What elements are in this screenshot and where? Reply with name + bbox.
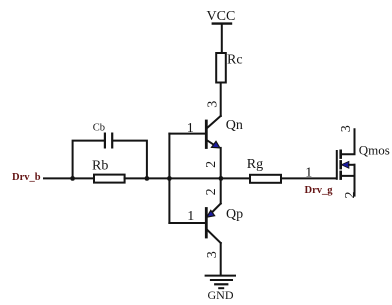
svg-text:1: 1 [187,209,194,224]
mosfet Qmos channel segment middle [339,161,342,168]
svg-text:Cb: Cb [93,122,105,133]
junction dot right riser [145,176,150,181]
svg-text:3: 3 [339,125,354,132]
transistor Qn emitter arrow [212,141,220,148]
svg-text:3: 3 [206,101,221,108]
capacitor Cb left plate [104,134,106,148]
mosfet Qmos body arrow [341,161,349,168]
mosfet Qmos source lead [342,165,355,176]
capacitor Cb right riser wire [113,141,147,179]
wire Qp collector to ground [220,243,222,275]
transistor Qn emitter stroke [207,140,215,145]
resistor Rc [216,53,226,83]
wire Qp base [169,222,205,224]
wire Qp emitter vertical [220,178,222,203]
ground bar 3 [215,283,227,285]
svg-text:Rc: Rc [227,53,243,68]
svg-text:VCC: VCC [207,9,236,24]
mosfet Qmos source pin down [354,176,356,196]
power VCC bar [213,22,231,24]
transistor Qp emitter stroke [213,204,221,212]
transistor Qp emitter arrow [207,210,215,217]
mosfet Qmos channel segment bottom [339,172,342,179]
resistor Rb [94,175,125,183]
resistor Rg [250,175,281,183]
transistor Qn collector stroke [207,116,221,128]
mosfet Qmos gate bar [336,151,338,179]
junction dot base link [167,176,172,181]
svg-text:2: 2 [204,161,219,168]
wire Rb to Rg [125,177,250,179]
ground bar 1 [206,275,235,277]
svg-text:2: 2 [204,188,219,195]
svg-text:3: 3 [205,251,220,258]
svg-text:2: 2 [343,192,358,199]
svg-text:Qn: Qn [226,118,243,133]
mosfet Qmos body wire [349,164,355,166]
svg-text:GND: GND [208,288,234,302]
capacitor Cb right plate [111,134,113,148]
mosfet Qmos channel segment top [339,151,342,158]
wire Rg to Qmos gate [281,177,336,179]
wire base link vertical [168,134,170,223]
svg-text:Qp: Qp [226,207,243,222]
wire VCC to Rc [221,24,223,53]
svg-text:Drv_g: Drv_g [305,185,334,196]
transistor Qn base bar [205,121,208,148]
svg-text:Drv_b: Drv_b [12,172,41,183]
svg-text:Rg: Rg [247,157,263,172]
transistor Qp collector stroke [207,230,221,243]
junction dot left riser [70,176,75,181]
wire Drv_b input [44,177,94,179]
wire Qn emitter to node [220,148,222,179]
capacitor Cb left riser wire [73,141,104,179]
ground bar 2 [211,279,232,281]
wire Rc to Qn collector [220,83,222,117]
svg-text:Rb: Rb [92,159,108,174]
junction dot emitter node [219,176,224,181]
svg-text:1: 1 [305,165,312,180]
transistor Qp base bar [205,209,208,238]
mosfet Qmos drain lead [342,129,355,154]
ground bar 4 [219,287,223,289]
svg-text:Qmos: Qmos [359,143,390,158]
wire Qn base [169,133,205,135]
